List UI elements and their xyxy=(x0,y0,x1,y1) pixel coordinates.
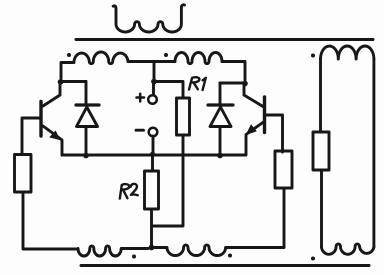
phase dot bottom left winding xyxy=(132,255,136,259)
wire center tap down xyxy=(153,62,156,82)
wire collector junction to diode D2 top xyxy=(220,82,245,85)
node collector right junction xyxy=(242,81,248,87)
winding W2 right half primary xyxy=(175,53,222,64)
baseline underline bottom xyxy=(81,264,369,267)
winding W6 secondary top humps xyxy=(321,46,374,59)
label R2 xyxy=(120,184,138,199)
winding W5 bottom right xyxy=(154,245,284,256)
phase dot left primary xyxy=(67,53,71,57)
winding W7 secondary bottom cups xyxy=(322,244,375,254)
resistor Rb1 (left base resistor) xyxy=(15,155,32,193)
phase dot bottom right winding xyxy=(228,254,232,258)
node D2 emitter rail junction xyxy=(217,153,223,159)
diode D2 top lead xyxy=(219,83,222,104)
wire Q2 base xyxy=(266,115,283,152)
phase dot secondary top xyxy=(311,54,315,58)
resistor Rb2 (right base resistor) xyxy=(275,151,292,188)
diode D1 bottom lead xyxy=(85,127,88,156)
diode D1 triangle xyxy=(77,107,98,127)
node minus rail junction xyxy=(150,152,155,157)
resistor R2 body xyxy=(145,171,159,209)
transistor Q1 collector lead xyxy=(43,82,60,106)
transistor Q2 base bar xyxy=(263,97,266,133)
transistor Q1 emitter arrow xyxy=(49,130,60,140)
diode D2 cathode bar xyxy=(208,103,233,106)
wire Rb1 bottom to bottom rail xyxy=(23,192,78,249)
wire R1 bottom down across rail xyxy=(152,135,183,226)
core line (top horizontal) xyxy=(76,38,373,41)
label minus sign xyxy=(136,129,144,132)
wire rail to R2 top xyxy=(151,155,154,171)
wire Q1 base xyxy=(22,118,40,154)
resistor R1 body xyxy=(177,98,190,135)
diode D1 top lead xyxy=(85,82,88,105)
transistor Q2 collector lead xyxy=(244,84,263,107)
diode D2 triangle xyxy=(210,107,231,127)
winding W3 top (above core) xyxy=(113,5,184,32)
wire primary right end down xyxy=(222,62,245,84)
terminal plus circle xyxy=(148,95,157,104)
wire secondary right rail xyxy=(372,59,375,247)
resistor Rload body xyxy=(313,132,329,170)
transistor Q2 emitter arrow xyxy=(245,124,256,135)
diode D1 cathode bar xyxy=(76,103,99,106)
phase dot right primary xyxy=(164,53,168,57)
winding W1 left half primary xyxy=(74,52,128,64)
wire minus terminal down to rail xyxy=(152,136,155,154)
wire collector junction to diode D1 top xyxy=(61,80,86,83)
wire junction to plus terminal xyxy=(152,83,155,95)
transistor Q2 emitter lead xyxy=(246,122,264,155)
diode D2 bottom lead xyxy=(219,127,222,156)
wire primary middle segment xyxy=(128,60,175,63)
wire secondary left rail upper xyxy=(319,59,322,132)
node collector left junction xyxy=(58,79,64,85)
phase dot secondary bottom xyxy=(311,257,315,261)
node D1 emitter rail junction xyxy=(83,153,89,159)
label R1 xyxy=(189,77,206,90)
transistor Q1 emitter lead xyxy=(43,126,62,155)
label plus sign xyxy=(137,94,145,102)
node plus junction xyxy=(151,79,157,85)
wire Rb2 bottom to bottom rail xyxy=(283,188,286,247)
winding W4 bottom left xyxy=(78,246,148,256)
wire R2 bottom to bottom winding tap xyxy=(150,209,153,247)
wire emitter rail xyxy=(62,154,245,157)
wire left end of primary to collector junction xyxy=(61,63,74,83)
terminal minus circle xyxy=(149,128,158,137)
transistor Q1 base bar xyxy=(39,102,42,137)
wire secondary left rail lower xyxy=(320,170,323,247)
wire junction to R1 top xyxy=(154,82,183,99)
node bottom center tap xyxy=(149,245,155,251)
